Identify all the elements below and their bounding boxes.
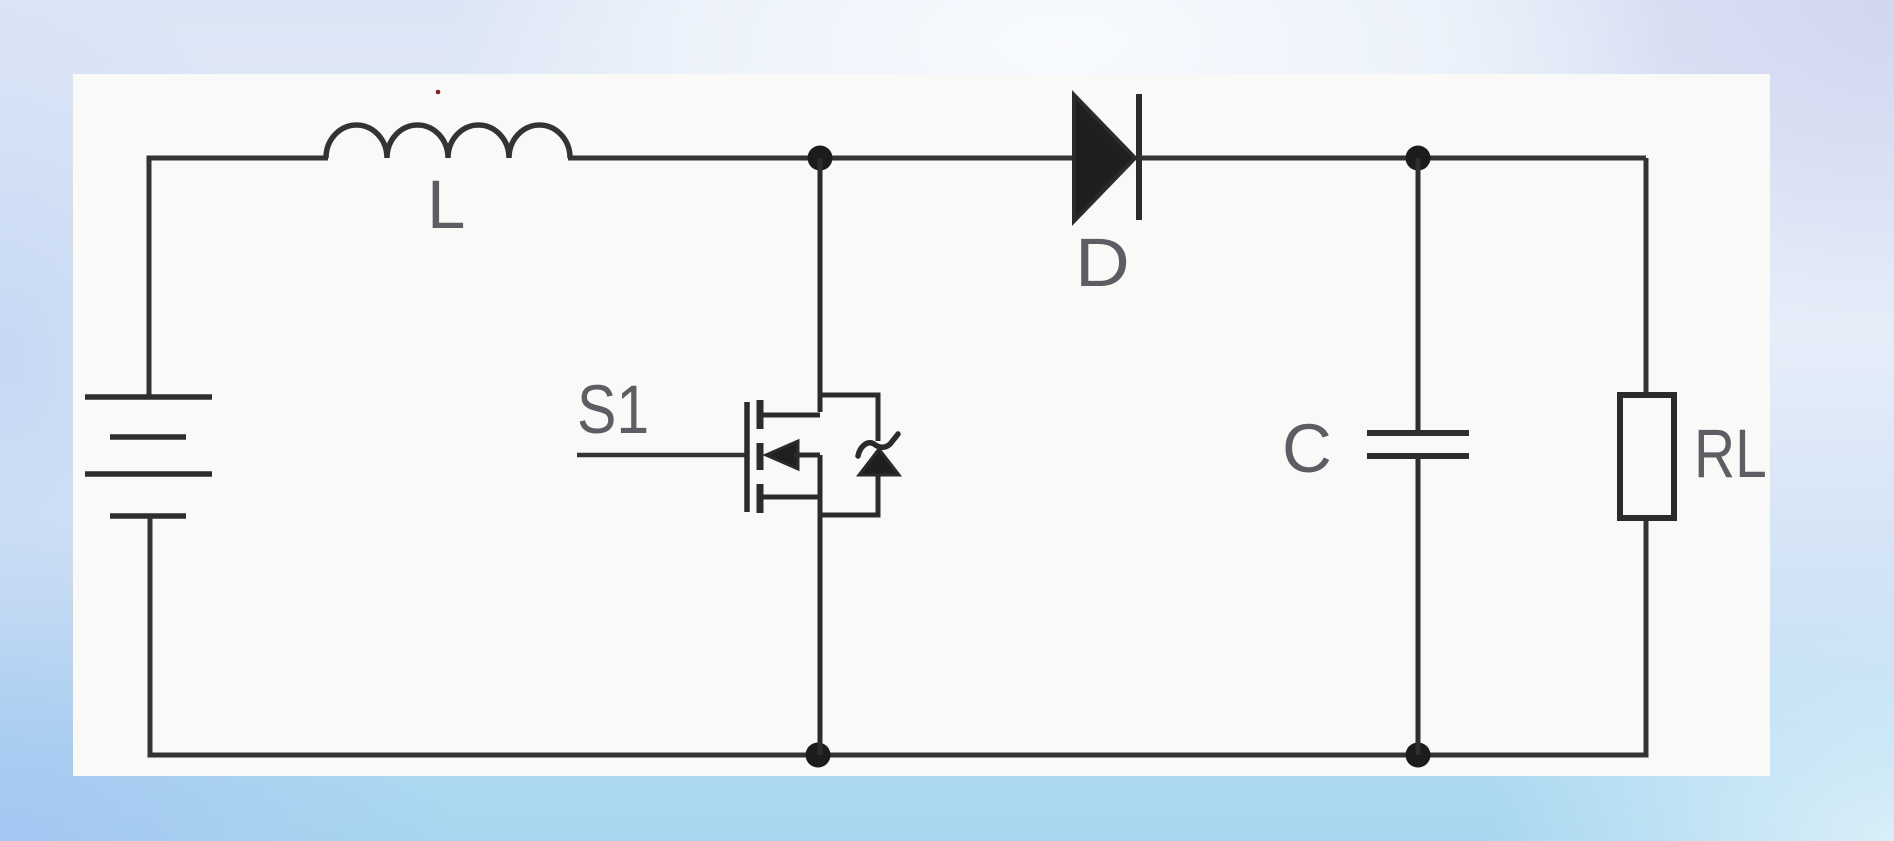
wire: right rail top (cathode node down to RL) [1644,158,1649,397]
resistor RL [1620,395,1674,518]
wire: top-left corner (battery + up to inductor) [149,158,328,399]
battery V (two-cell symbol) [85,397,212,516]
node: capacitor junction on bottom rail [1406,743,1431,768]
channel bar (three dashes) [757,400,764,513]
node: capacitor junction on top wire [1406,146,1431,171]
wire: top segment from diode cathode to top-right corner [1139,156,1646,161]
body-diode branch top jog [820,395,878,441]
node: MOSFET source junction on bottom rail [806,743,831,768]
diode D [1074,94,1139,221]
transistor S1 (NMOS) [747,158,899,755]
capacitor C [1367,158,1469,755]
wire: battery - down to bottom-left corner and bottom rail to right corner [150,516,1646,755]
svg-text:RL: RL [1694,416,1767,492]
node: drain junction on top wire [808,146,833,171]
source lead [762,455,820,755]
svg-text:L: L [427,166,465,243]
gate electrode bar [744,402,750,512]
wire: top segment from inductor to diode anode [568,156,1076,161]
red dot artifact [436,90,441,95]
body-diode branch bottom jog [820,472,878,515]
wire: capacitor top lead [1416,158,1421,433]
wire: gate drive lead [577,453,747,458]
body diode bent cathode bar [858,434,898,456]
body diode triangle [859,449,899,475]
drain lead [762,158,820,415]
body arrow [766,441,798,469]
svg-text:C: C [1282,410,1332,487]
wire: capacitor bottom lead [1416,456,1421,755]
capacitor plates [1367,430,1469,436]
inductor L [326,125,570,158]
white schematic panel [73,74,1770,776]
svg-text:S1: S1 [577,371,649,448]
svg-text:D: D [1075,224,1130,301]
